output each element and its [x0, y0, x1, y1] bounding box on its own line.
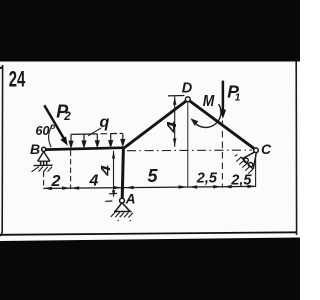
svg-text:2: 2: [51, 173, 61, 190]
svg-text:24: 24: [9, 67, 26, 92]
svg-text:60: 60: [36, 124, 50, 138]
svg-text:2,5: 2,5: [230, 173, 252, 189]
svg-text:4: 4: [99, 165, 113, 177]
svg-text:M: M: [203, 93, 215, 110]
svg-text:B: B: [30, 141, 40, 157]
svg-text:2: 2: [63, 111, 71, 123]
svg-text:4: 4: [89, 173, 99, 190]
svg-text:C: C: [261, 141, 272, 157]
svg-text:A: A: [125, 192, 136, 207]
svg-text:D: D: [182, 81, 193, 97]
svg-text:1: 1: [235, 92, 241, 103]
svg-text:2,5: 2,5: [196, 171, 218, 187]
svg-text:5: 5: [148, 166, 159, 186]
svg-text:o: o: [50, 122, 55, 131]
svg-text:4: 4: [165, 121, 179, 134]
